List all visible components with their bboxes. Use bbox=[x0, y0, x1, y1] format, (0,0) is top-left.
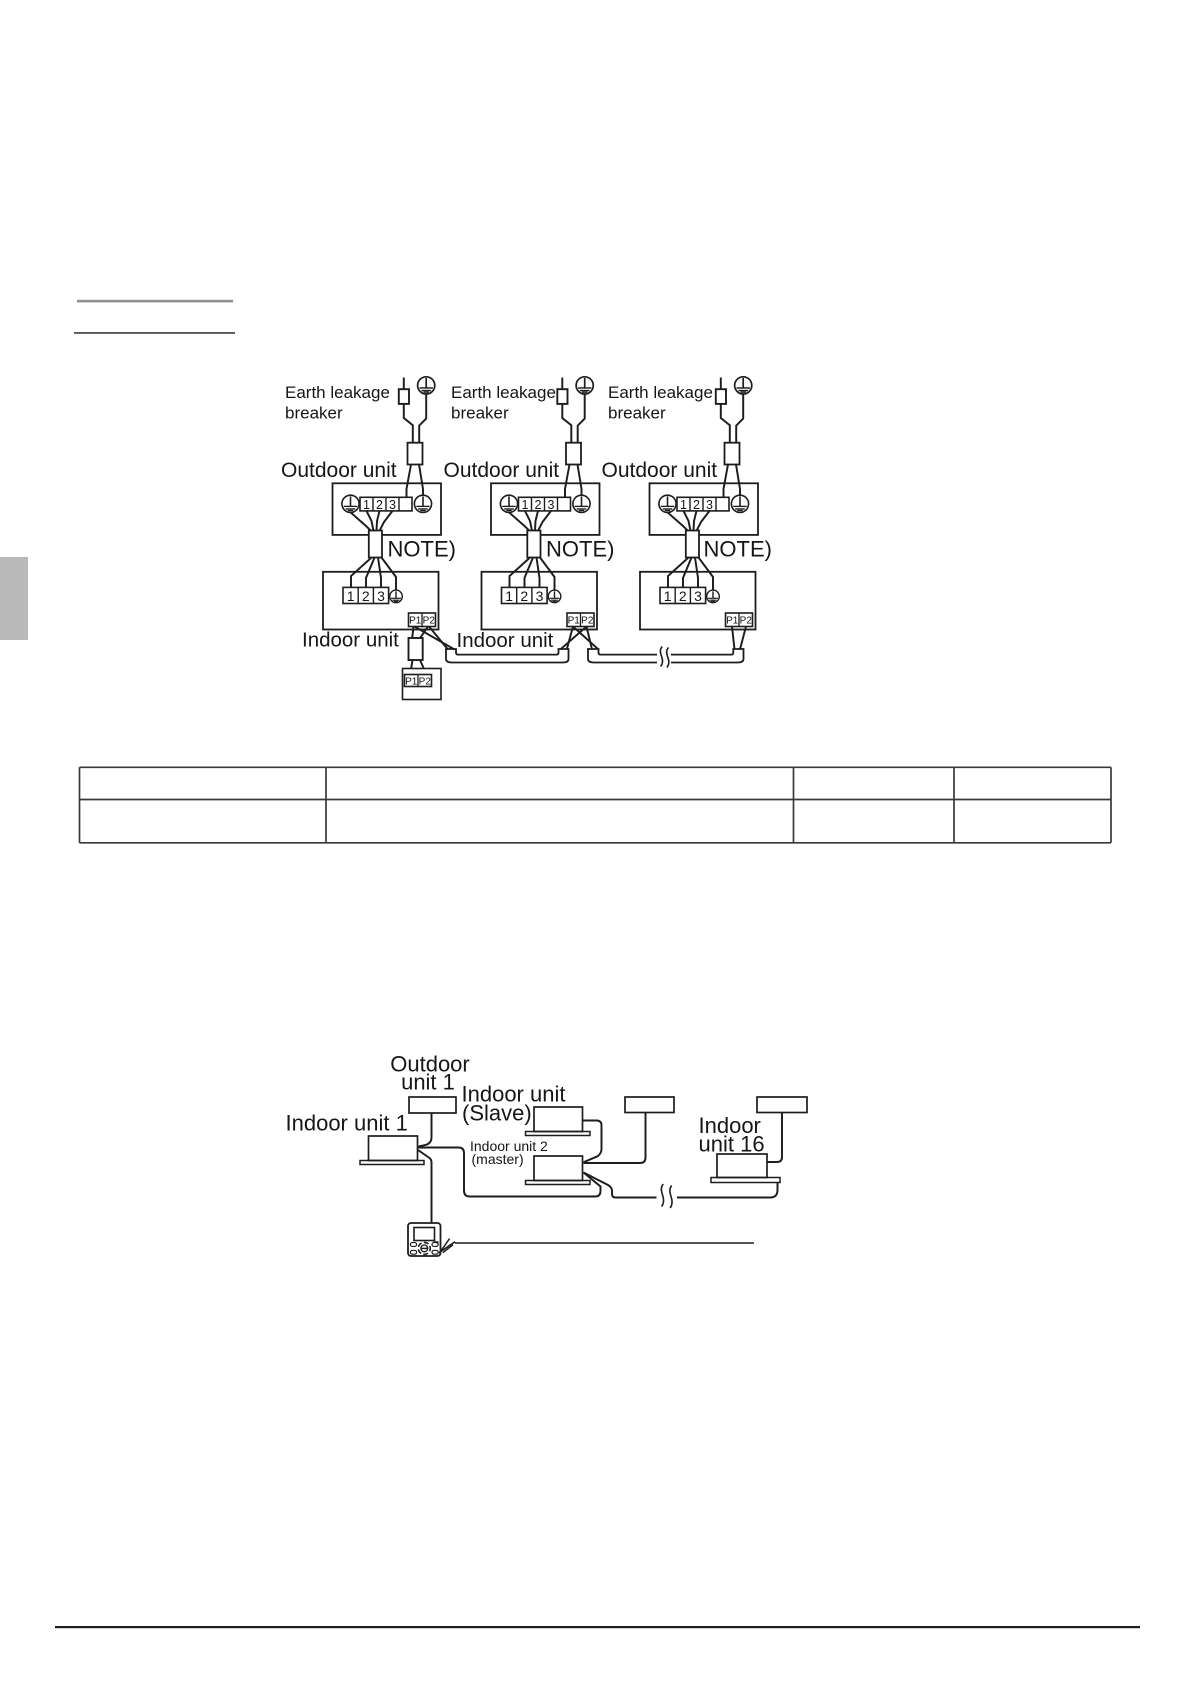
section tab (grey, left page edge) bbox=[0, 557, 28, 640]
hose B break mark bbox=[660, 647, 668, 668]
svg-text:NOTE): NOTE) bbox=[388, 537, 456, 562]
svg-text:P1: P1 bbox=[409, 616, 422, 627]
indoor unit 1 base plate bbox=[360, 1161, 424, 1165]
outdoor unit 1 box bbox=[409, 1097, 456, 1113]
indoor unit 2 master body bbox=[534, 1156, 583, 1181]
indoor unit 16 base plate bbox=[711, 1178, 780, 1183]
earth leakage breaker label (column 3) bbox=[608, 383, 713, 422]
outdoor right earth symbol (column 3) bbox=[731, 495, 748, 512]
indoor unit 16 label bbox=[699, 1113, 765, 1157]
svg-text:1: 1 bbox=[505, 588, 513, 604]
wire earth to supply cable (column 1) bbox=[419, 394, 426, 443]
wire cable to right earth (column 2) bbox=[578, 465, 582, 496]
remote controller P1 P2 terminal (column 1) bbox=[405, 675, 432, 688]
svg-text:breaker: breaker bbox=[608, 403, 666, 422]
wires P1 P2 to remote cable (column 1) bbox=[412, 627, 428, 639]
power supply cable (column 2) bbox=[566, 443, 581, 465]
outdoor terminal block 1 2 3 (column 2) bbox=[519, 497, 571, 512]
earth symbol at breaker (column 2) bbox=[576, 377, 593, 394]
wire breaker to supply cable (column 1) bbox=[404, 404, 413, 443]
earth leakage breaker ELB2 bbox=[557, 389, 567, 404]
indoor unit 2 (master) label bbox=[470, 1138, 548, 1167]
outdoor right earth symbol (column 2) bbox=[573, 495, 590, 512]
remote controller pointer line bbox=[455, 1242, 754, 1244]
svg-text:2: 2 bbox=[535, 498, 542, 512]
wires cable to indoor terminals (column 2) bbox=[510, 558, 555, 591]
inter-unit wiring hose B left part bbox=[588, 649, 657, 663]
wires cable to indoor terminals (column 1) bbox=[351, 558, 396, 591]
outdoor unit box (column 3) bbox=[650, 483, 759, 535]
svg-text:2: 2 bbox=[376, 498, 383, 512]
outdoor terminal block 1 2 3 (column 1) bbox=[360, 497, 412, 512]
inter-unit wiring hose B right part bbox=[671, 649, 744, 663]
indoor earth symbol (column 1) bbox=[390, 590, 403, 603]
earth leakage breaker ELB1 bbox=[399, 389, 409, 404]
wire cable to right earth (column 1) bbox=[419, 465, 423, 496]
svg-text:1: 1 bbox=[664, 588, 672, 604]
svg-text:(Slave): (Slave) bbox=[462, 1101, 532, 1126]
indoor unit 2 master base plate bbox=[526, 1181, 591, 1185]
wires outdoor terminals to interconnect cable (column 3) bbox=[668, 511, 710, 531]
svg-text:3: 3 bbox=[389, 498, 396, 512]
earth symbol at breaker (column 1) bbox=[418, 377, 435, 394]
svg-text:Outdoor unit: Outdoor unit bbox=[444, 459, 560, 482]
svg-text:P1: P1 bbox=[568, 616, 581, 627]
outdoor unit box (column 2) bbox=[491, 483, 600, 535]
interconnect cable NOTE (column 1) bbox=[369, 531, 382, 558]
svg-text:breaker: breaker bbox=[285, 403, 343, 422]
svg-text:3: 3 bbox=[548, 498, 555, 512]
outdoor left earth symbol (column 2) bbox=[500, 495, 517, 512]
wire earth to supply cable (column 2) bbox=[578, 394, 585, 443]
arrow pointing at remote controller bbox=[439, 1239, 455, 1253]
wires column2 P1 P2 to hose A bbox=[561, 627, 587, 650]
interconnect cable NOTE (column 2) bbox=[527, 531, 540, 558]
outdoor left earth symbol (column 1) bbox=[342, 495, 359, 512]
svg-text:P1: P1 bbox=[405, 676, 418, 687]
svg-text:Outdoor unit: Outdoor unit bbox=[281, 459, 397, 482]
svg-text:1: 1 bbox=[522, 498, 529, 512]
supply stem above breaker (column 2) bbox=[561, 378, 563, 390]
wires cable to indoor terminals (column 3) bbox=[668, 558, 713, 591]
wires column3 P1 P2 to hose B bbox=[732, 627, 746, 650]
svg-text:3: 3 bbox=[536, 588, 544, 604]
remote controller dial bbox=[418, 1242, 430, 1254]
indoor unit 16 body bbox=[717, 1154, 767, 1178]
indoor terminal block 1 2 3 (column 3) bbox=[660, 587, 706, 604]
wire outdoor 1 to indoor 1 bbox=[419, 1113, 432, 1146]
svg-text:Earth leakage: Earth leakage bbox=[285, 383, 390, 402]
svg-text:1: 1 bbox=[363, 498, 370, 512]
indoor earth symbol (column 2) bbox=[548, 590, 561, 603]
svg-text:unit 16: unit 16 bbox=[699, 1132, 765, 1157]
wires cable to remote controller (column 1) bbox=[411, 660, 424, 669]
svg-text:P2: P2 bbox=[740, 616, 753, 627]
svg-text:NOTE): NOTE) bbox=[546, 537, 614, 562]
earth leakage breaker label (column 2) bbox=[451, 383, 556, 422]
svg-text:Earth leakage: Earth leakage bbox=[608, 383, 713, 402]
power supply cable (column 1) bbox=[408, 443, 423, 465]
indoor P1 P2 terminal (column 3) bbox=[726, 613, 753, 627]
outdoor unit box (column 1) bbox=[333, 483, 442, 535]
svg-text:3: 3 bbox=[377, 588, 385, 604]
wire cable to terminal 4 (column 2) bbox=[565, 465, 570, 498]
outdoor unit 16 box bbox=[757, 1097, 807, 1113]
indoor unit 1 body bbox=[369, 1136, 418, 1161]
indoor terminal block 1 2 3 (column 2) bbox=[502, 587, 548, 604]
wire cable to right earth (column 3) bbox=[736, 465, 740, 496]
svg-text:2: 2 bbox=[362, 588, 370, 604]
interconnect cable NOTE (column 3) bbox=[686, 531, 699, 558]
remote controller box (column 1) bbox=[403, 669, 442, 700]
svg-text:2: 2 bbox=[520, 588, 528, 604]
svg-text:P2: P2 bbox=[419, 676, 432, 687]
indoor unit box (column 1) bbox=[323, 572, 439, 630]
indoor P1 P2 terminal (column 1) bbox=[409, 613, 436, 627]
wire earth to supply cable (column 3) bbox=[736, 394, 743, 443]
wire indoor 1 to remote controller bbox=[418, 1150, 432, 1223]
remote controller screen bbox=[414, 1228, 435, 1241]
specification table bbox=[80, 767, 1112, 843]
indoor unit box (column 3) bbox=[640, 572, 756, 630]
indoor P1 P2 terminal (column 2) bbox=[567, 613, 594, 627]
wire cable to terminal 4 (column 1) bbox=[407, 465, 412, 498]
outdoor unit 1 label bbox=[390, 1052, 470, 1095]
outdoor unit 2 box bbox=[625, 1097, 674, 1113]
remote controller buttons bbox=[410, 1241, 438, 1254]
wires column1 P1 P2 to hose A bbox=[415, 627, 455, 650]
power supply cable (column 3) bbox=[725, 443, 740, 465]
svg-text:unit 1: unit 1 bbox=[401, 1070, 455, 1095]
earth leakage breaker ELB3 bbox=[716, 389, 726, 404]
outdoor terminal block 1 2 3 (column 3) bbox=[677, 497, 729, 512]
wire breaker to supply cable (column 2) bbox=[562, 404, 571, 443]
indoor unit box (column 2) bbox=[482, 572, 598, 630]
indoor unit slave body bbox=[534, 1107, 583, 1132]
svg-text:breaker: breaker bbox=[451, 403, 509, 422]
indoor earth symbol (column 3) bbox=[707, 590, 720, 603]
svg-text:2: 2 bbox=[693, 498, 700, 512]
svg-text:Indoor unit 1: Indoor unit 1 bbox=[286, 1111, 408, 1136]
svg-text:P2: P2 bbox=[581, 616, 594, 627]
wire master to indoor 16 with break bbox=[584, 1173, 778, 1198]
supply stem above breaker (column 3) bbox=[720, 378, 722, 390]
wire break mark (diagram 2) bbox=[661, 1184, 672, 1208]
svg-text:3: 3 bbox=[694, 588, 702, 604]
wire breaker to supply cable (column 3) bbox=[721, 404, 730, 443]
svg-text:P2: P2 bbox=[423, 616, 436, 627]
supply stem above breaker (column 1) bbox=[403, 378, 405, 390]
wires outdoor terminals to interconnect cable (column 2) bbox=[509, 511, 551, 531]
wire outdoor 16 to indoor 16 bbox=[768, 1113, 783, 1163]
earth symbol at breaker (column 3) bbox=[735, 377, 752, 394]
heading rule (black) bbox=[74, 332, 235, 334]
outdoor right earth symbol (column 1) bbox=[414, 495, 431, 512]
wire cable to terminal 4 (column 3) bbox=[724, 465, 729, 498]
svg-text:(master): (master) bbox=[472, 1151, 524, 1167]
wire slave to master bbox=[583, 1121, 602, 1163]
indoor unit slave base plate bbox=[526, 1132, 591, 1136]
svg-text:Earth leakage: Earth leakage bbox=[451, 383, 556, 402]
wires outdoor terminals to interconnect cable (column 1) bbox=[351, 511, 393, 531]
svg-text:2: 2 bbox=[679, 588, 687, 604]
indoor unit (slave) label bbox=[462, 1082, 566, 1126]
inter-unit wiring hose A (indoor 1 to indoor 2) bbox=[446, 649, 569, 663]
svg-text:Indoor unit: Indoor unit bbox=[302, 628, 399, 651]
wire outdoor 2 to master bbox=[584, 1113, 646, 1164]
indoor terminal block 1 2 3 (column 1) bbox=[343, 587, 389, 604]
footer rule bbox=[55, 1626, 1140, 1628]
heading rule (grey) bbox=[77, 300, 233, 303]
svg-text:NOTE): NOTE) bbox=[704, 537, 772, 562]
svg-text:Indoor unit: Indoor unit bbox=[457, 629, 554, 652]
svg-text:1: 1 bbox=[347, 588, 355, 604]
svg-text:3: 3 bbox=[706, 498, 713, 512]
remote controller cable (column 1) bbox=[409, 638, 423, 660]
svg-text:Outdoor unit: Outdoor unit bbox=[602, 459, 718, 482]
wire indoor 1 to indoor 2 (master) bbox=[418, 1148, 601, 1197]
outdoor left earth symbol (column 3) bbox=[659, 495, 676, 512]
remote controller body (diagram 2) bbox=[408, 1223, 441, 1256]
earth leakage breaker label (column 1) bbox=[285, 383, 390, 422]
svg-text:1: 1 bbox=[680, 498, 687, 512]
svg-text:P1: P1 bbox=[726, 616, 739, 627]
wires column2 P1 P2 to hose B bbox=[573, 627, 598, 650]
